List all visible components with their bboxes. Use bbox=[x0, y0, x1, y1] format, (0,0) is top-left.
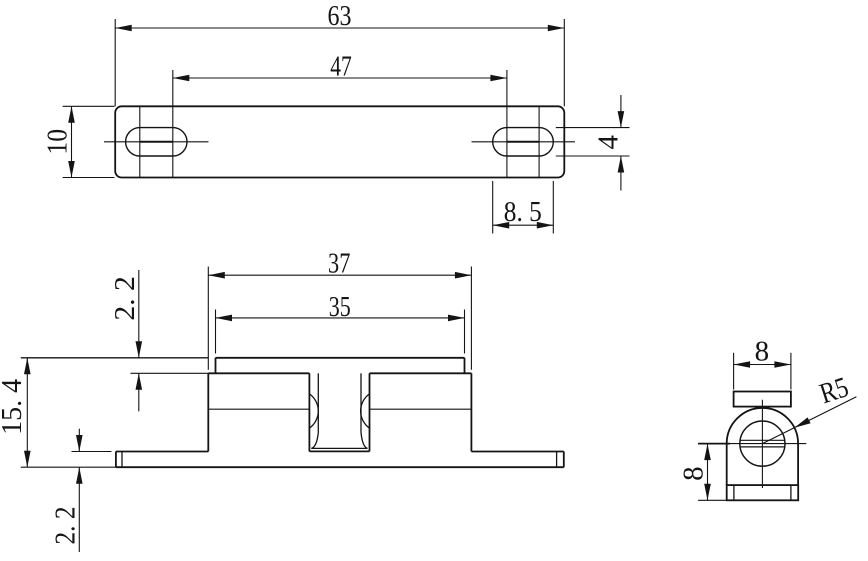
svg-text:2. 2: 2. 2 bbox=[50, 507, 82, 545]
dimension 15.4 bbox=[21, 357, 209, 359]
dimension 2.2 platform thickness bbox=[131, 372, 209, 374]
hole circle bbox=[740, 421, 785, 466]
dimension 47 bbox=[172, 70, 174, 178]
svg-text:63: 63 bbox=[328, 0, 352, 32]
centerline ext bold bbox=[698, 443, 730, 445]
svg-text:37: 37 bbox=[328, 248, 350, 280]
svg-text:2. 2: 2. 2 bbox=[109, 276, 141, 321]
dimension 4 bbox=[556, 127, 630, 129]
svg-text:47: 47 bbox=[330, 51, 352, 83]
svg-text:8: 8 bbox=[677, 466, 709, 481]
dimension 8 top bbox=[733, 353, 735, 390]
dimension 8 left bbox=[698, 499, 726, 501]
right slot centerline bbox=[472, 141, 576, 143]
mid line through body bbox=[208, 408, 309, 410]
dimension 8.5 bbox=[492, 181, 494, 234]
svg-text:15. 4: 15. 4 bbox=[0, 378, 28, 434]
side view: top slab bbox=[734, 392, 791, 407]
dimension 2.2 base thickness bbox=[72, 451, 112, 453]
svg-text:10: 10 bbox=[42, 129, 74, 155]
slot mid thick segments bbox=[140, 141, 173, 143]
left slot 8.5x4 bbox=[126, 128, 187, 156]
svg-text:35: 35 bbox=[329, 291, 351, 323]
center channel walls bbox=[308, 373, 310, 451]
channel wall bend arcs bbox=[309, 394, 318, 428]
slot tangent projection lines bbox=[139, 106, 141, 177]
channel bottom bbox=[309, 450, 369, 452]
vertical centerline bbox=[761, 400, 763, 488]
left slot centerline bbox=[104, 141, 209, 143]
top view: mounting plate 63x10 bbox=[115, 106, 564, 177]
front view: base plate bbox=[116, 451, 208, 453]
svg-text:8: 8 bbox=[755, 336, 770, 368]
chords in circle bbox=[740, 439, 785, 441]
body 37 wide bbox=[207, 373, 209, 451]
horizontal centerline bbox=[698, 443, 806, 445]
base end tab lines bbox=[121, 452, 123, 468]
dimension 10 bbox=[63, 105, 115, 107]
dome R5 bbox=[727, 408, 798, 485]
dimension 37 bbox=[207, 267, 209, 370]
dimension 35 bbox=[215, 310, 217, 354]
svg-text:4: 4 bbox=[593, 135, 625, 150]
svg-text:8. 5: 8. 5 bbox=[504, 196, 542, 228]
dimension 63 bbox=[114, 19, 116, 106]
side base tab lines bbox=[733, 485, 735, 500]
platform 35x2.2 bbox=[216, 357, 465, 359]
R5 leader bbox=[762, 397, 856, 444]
right slot 8.5x4 bbox=[493, 128, 554, 156]
side base box bbox=[727, 485, 799, 500]
